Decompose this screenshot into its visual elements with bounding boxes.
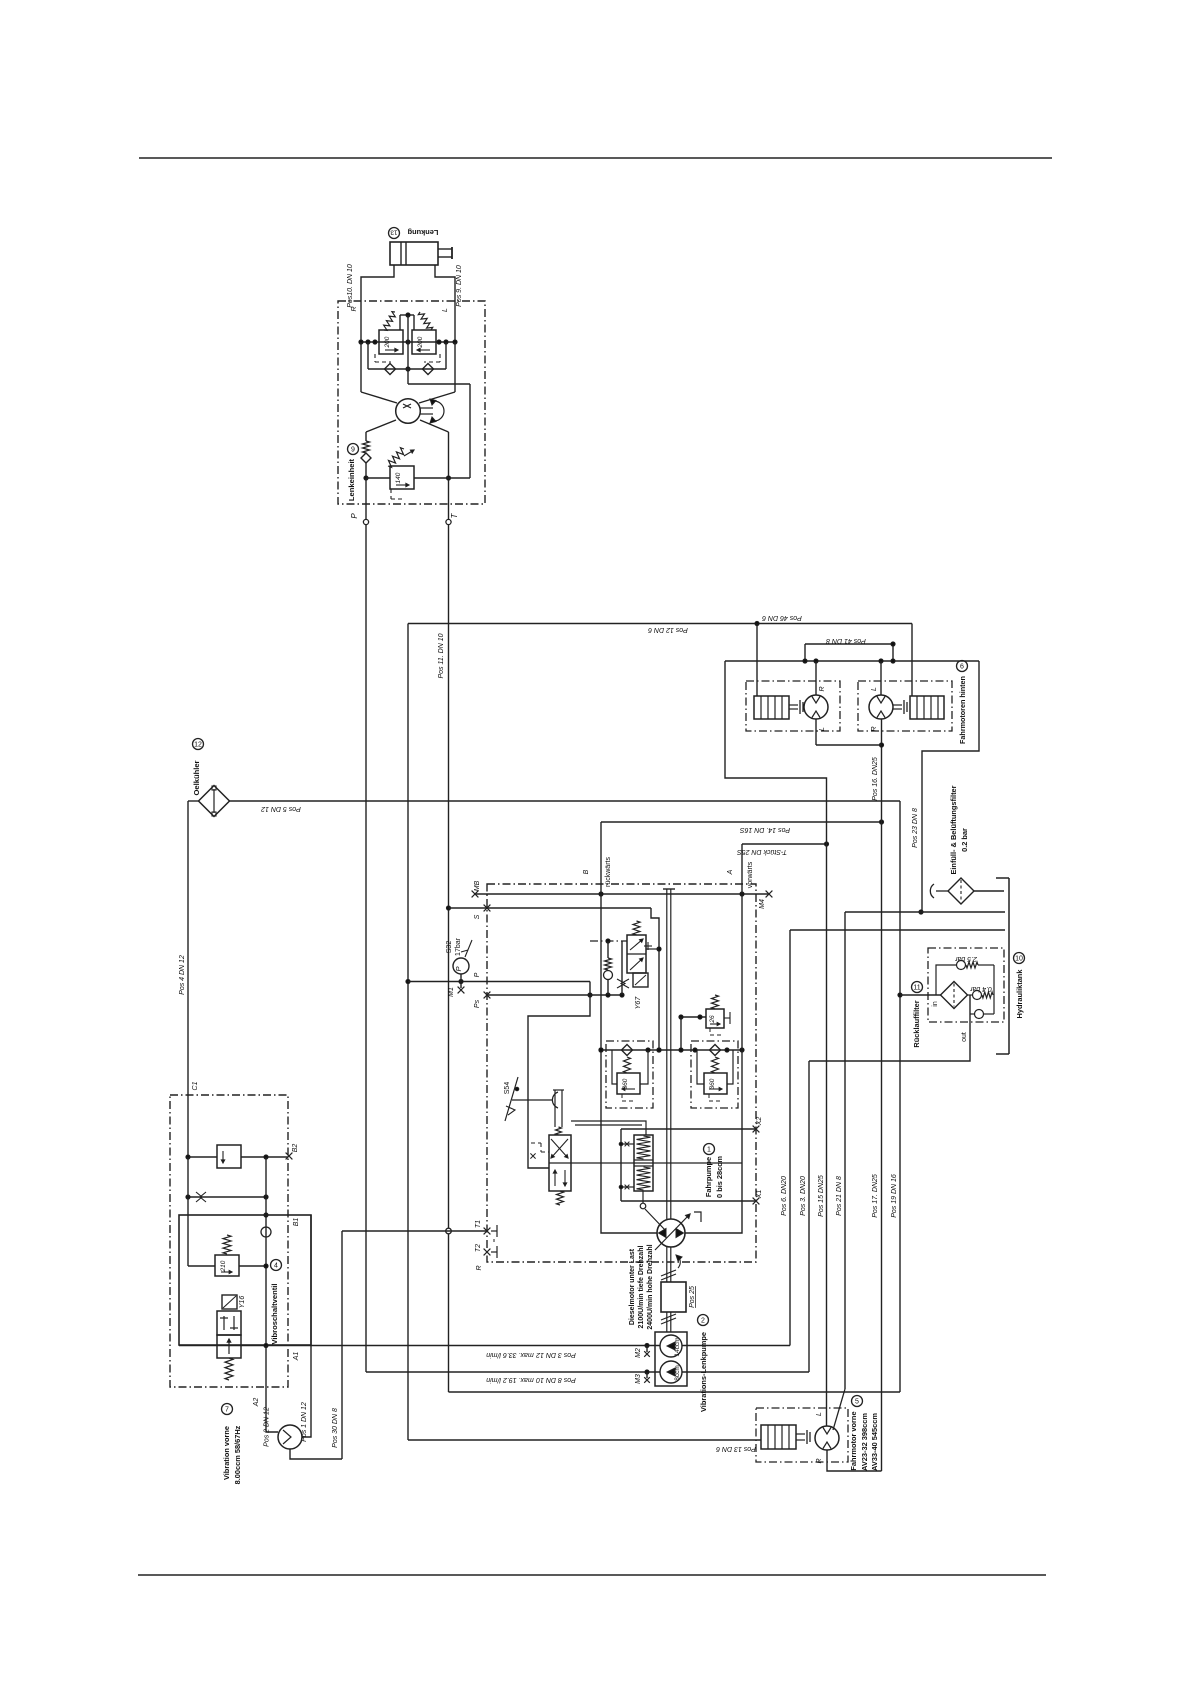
- svg-text:R: R: [476, 1265, 483, 1270]
- variable displacement travel pump: [657, 1219, 685, 1247]
- svg-text:M2: M2: [635, 1348, 642, 1358]
- svg-text:B1: B1: [293, 1218, 300, 1227]
- svg-text:Pos 21 DN 8: Pos 21 DN 8: [836, 1176, 843, 1216]
- svg-text:Lenkung: Lenkung: [407, 228, 438, 237]
- tank supply wire lower: [790, 929, 1005, 931]
- svg-text:0 bis 28ccm: 0 bis 28ccm: [715, 1156, 724, 1198]
- balloon 11 Ruecklauffilter: [912, 982, 923, 993]
- svg-text:Vibroschaltventil: Vibroschaltventil: [270, 1283, 279, 1344]
- svg-text:AV23-32 398ccm: AV23-32 398ccm: [860, 1413, 869, 1471]
- page top rule: [139, 157, 1052, 159]
- return filter assembly enclosure: [928, 948, 1004, 1022]
- pilot dash-dot wire: [590, 940, 627, 942]
- wire cylinder right port to L: [435, 265, 455, 301]
- front motor return wire: [827, 1450, 882, 1471]
- svg-text:5: 5: [855, 1399, 859, 1406]
- balloon 12 oil cooler: [193, 739, 204, 750]
- svg-text:A2: A2: [253, 1398, 260, 1408]
- svg-text:Pos 17. DN25: Pos 17. DN25: [872, 1174, 879, 1218]
- svg-text:Pos 30 DN 8: Pos 30 DN 8: [332, 1408, 339, 1448]
- cross-port relief valve 200 right: [412, 330, 436, 354]
- svg-text:Pos 5 DN 12: Pos 5 DN 12: [261, 805, 301, 812]
- svg-text:8ccm: 8ccm: [674, 1365, 681, 1381]
- port Ps wire: [484, 992, 491, 999]
- svg-text:Pos 41 DN 8: Pos 41 DN 8: [826, 637, 866, 644]
- wire Pos 46 to right parking brake: [911, 624, 913, 697]
- orifice branch wire: [188, 1196, 266, 1198]
- svg-text:in: in: [932, 1001, 939, 1007]
- svg-text:0.2 bar: 0.2 bar: [960, 828, 969, 852]
- case drain symbol: [694, 1212, 701, 1222]
- svg-text:0.4 bar: 0.4 bar: [969, 985, 991, 992]
- steering work lines to orbital: [360, 342, 362, 392]
- svg-text:Fahrmotor vorne: Fahrmotor vorne: [849, 1411, 858, 1470]
- wire Pos 13 brake release front: [408, 1439, 761, 1441]
- wire Pos 21 from tank line: [844, 912, 846, 1389]
- svg-text:2.5 bar: 2.5 bar: [954, 955, 977, 962]
- wire X1 pilot: [621, 1200, 756, 1202]
- right boost check and relief 360 assembly: [691, 1041, 738, 1108]
- wire X2 pilot: [621, 1128, 756, 1130]
- svg-text:M3: M3: [635, 1374, 642, 1384]
- wire A gallery tee: [742, 843, 827, 845]
- spring of inch valve: [557, 1191, 564, 1205]
- check ball: [261, 1227, 271, 1237]
- svg-text:Pos 15 DN25: Pos 15 DN25: [818, 1175, 825, 1217]
- ports T1 T2 R of pump group: [342, 1230, 487, 1232]
- pilot orifice branch: [621, 941, 623, 995]
- svg-text:MB: MB: [474, 880, 481, 891]
- front motor shaft: [796, 1433, 805, 1435]
- vibration valve group enclosure C1: [170, 1095, 288, 1387]
- steering unit enclosure (Lenkeinheit): [338, 301, 485, 504]
- svg-text:R: R: [871, 726, 878, 731]
- svg-text:4: 4: [274, 1263, 278, 1270]
- wire Pos 41 rear motor shift: [805, 643, 893, 645]
- left parking brake: [754, 696, 789, 719]
- left motor port wires: [815, 661, 817, 695]
- balloon 2 Vibrations-Lenkpumpe: [698, 1315, 709, 1326]
- spring of right relief: [418, 312, 432, 330]
- return filter element: [941, 982, 968, 1009]
- wire B2 node down: [187, 1157, 189, 1266]
- wire Ps branch to inch valve: [528, 995, 590, 1168]
- port M3: [645, 1370, 649, 1374]
- wire relief block to T gallery: [407, 369, 409, 384]
- svg-text:T2: T2: [475, 1244, 482, 1252]
- port B2: [286, 1153, 293, 1160]
- wire T line steering to pump group: [448, 525, 450, 1393]
- shaft coupling to engine: [666, 1247, 668, 1282]
- oil cooler: [199, 786, 230, 817]
- pilot bridge over reliefs: [400, 314, 414, 316]
- svg-text:10: 10: [1015, 956, 1023, 963]
- svg-text:rückwärts: rückwärts: [605, 857, 612, 887]
- vibration valve housing: [179, 1215, 311, 1345]
- rear motor supply gallery: [725, 660, 979, 662]
- svg-text:Pos 12 DN 6: Pos 12 DN 6: [648, 626, 688, 633]
- svg-text:1: 1: [707, 1147, 711, 1154]
- svg-text:T-Stück DN 25S: T-Stück DN 25S: [737, 848, 787, 855]
- inch valve stem: [554, 1090, 556, 1127]
- svg-text:S54: S54: [504, 1082, 511, 1095]
- svg-text:Fahrpumpe: Fahrpumpe: [704, 1157, 713, 1197]
- front travel motor: [815, 1426, 839, 1450]
- drive shaft: [666, 889, 668, 1219]
- right motor shaft: [893, 704, 902, 706]
- svg-text:P: P: [474, 972, 481, 977]
- svg-text:9: 9: [351, 447, 355, 454]
- svg-text:Pos 16. DN25: Pos 16. DN25: [872, 757, 879, 801]
- orbital bottom wires: [366, 420, 396, 432]
- svg-text:2400U/min hohe Drehzahl: 2400U/min hohe Drehzahl: [647, 1244, 654, 1329]
- svg-text:Pos 3 DN 12: Pos 3 DN 12: [536, 1351, 576, 1358]
- svg-text:8.00ccm 58/67Hz: 8.00ccm 58/67Hz: [233, 1425, 242, 1484]
- port MB with gauge line: [472, 891, 479, 898]
- svg-text:L: L: [819, 727, 826, 731]
- svg-text:max. 33.6 l/min: max. 33.6 l/min: [486, 1351, 534, 1358]
- svg-text:Pos 46 DN 6: Pos 46 DN 6: [762, 614, 802, 621]
- left boost check and relief 360 assembly: [606, 1041, 653, 1108]
- svg-text:P: P: [350, 513, 359, 519]
- svg-text:A1: A1: [293, 1352, 300, 1362]
- right rear motor assembly enclosure: [858, 681, 952, 731]
- svg-text:Pos 9. DN 10: Pos 9. DN 10: [456, 265, 463, 307]
- wire 14ccm suction Pos 6: [682, 1345, 790, 1347]
- svg-text:140: 140: [395, 472, 402, 483]
- wire inch valve to servo top: [571, 1121, 646, 1135]
- svg-text:200: 200: [384, 336, 391, 348]
- svg-text:S32: S32: [446, 941, 453, 954]
- svg-text:Ps: Ps: [474, 999, 481, 1008]
- svg-text:Rücklauffilter: Rücklauffilter: [912, 1000, 921, 1047]
- port M1: [460, 982, 462, 989]
- svg-text:Pos 13 DN 6: Pos 13 DN 6: [716, 1445, 756, 1452]
- svg-text:13: 13: [390, 229, 398, 236]
- balloon 7 Vibration vorne: [222, 1404, 233, 1415]
- svg-text:T1: T1: [475, 1220, 482, 1228]
- vibration and steering tandem pump: [655, 1332, 687, 1386]
- wire gallery right to tank breather line: [922, 661, 979, 912]
- wire work line B: [601, 822, 657, 1233]
- pressure gauge P with switch S32: [408, 981, 590, 983]
- relief valve 26: [681, 1016, 706, 1018]
- svg-text:B2: B2: [292, 1144, 299, 1153]
- svg-text:Hydrauliktank: Hydrauliktank: [1015, 969, 1024, 1019]
- svg-text:L: L: [442, 308, 449, 312]
- svg-text:Pos 14. DN 16S: Pos 14. DN 16S: [740, 826, 791, 833]
- left rear motor assembly enclosure: [746, 681, 840, 731]
- svg-text:11: 11: [913, 985, 920, 992]
- anticavitation check row wire: [368, 368, 446, 370]
- svg-text:Pos 6. DN20: Pos 6. DN20: [781, 1176, 788, 1216]
- T side wire: [448, 432, 450, 520]
- right parking brake: [910, 696, 944, 719]
- svg-text:210: 210: [220, 1260, 227, 1272]
- wire P line steering to pump M3 side: [365, 525, 367, 1373]
- vibration motor: [278, 1425, 302, 1449]
- svg-text:12: 12: [194, 742, 202, 749]
- pilot dashes of relief 140: [390, 489, 392, 499]
- steering relief valve 140: [366, 477, 390, 479]
- filter relief 0.4 bar: [968, 994, 974, 996]
- servo pilot orifices: [621, 1143, 634, 1145]
- orbital steering metering unit: [396, 399, 421, 424]
- spring of relief 140: [388, 448, 404, 468]
- svg-text:7: 7: [225, 1407, 229, 1414]
- svg-text:L: L: [816, 1412, 823, 1416]
- svg-text:2: 2: [701, 1318, 705, 1325]
- svg-text:Einfüll- & Belüftungsfilter: Einfüll- & Belüftungsfilter: [949, 785, 958, 874]
- svg-text:Fahrmotoren hinten: Fahrmotoren hinten: [958, 676, 967, 744]
- hydraulic tank: [996, 877, 1009, 879]
- front parking brake: [761, 1425, 796, 1449]
- svg-text:2100U/min tiefe Drehzahl: 2100U/min tiefe Drehzahl: [638, 1246, 645, 1329]
- wire B gallery to motors: [601, 821, 882, 823]
- wire A1 to vibration pump: [179, 1345, 660, 1347]
- servo feedback pin and lever: [642, 1191, 644, 1203]
- spring of Y16 valve: [225, 1358, 233, 1380]
- svg-text:Oelkühler: Oelkühler: [192, 760, 201, 795]
- svg-text:Vibration vorne: Vibration vorne: [222, 1426, 231, 1480]
- wire P to pilot gallery: [589, 982, 591, 996]
- shaft engine to tandem pump: [666, 1312, 668, 1332]
- relief valve 210 with spring: [188, 1265, 215, 1267]
- svg-text:Pos 23 DN 8: Pos 23 DN 8: [912, 808, 919, 848]
- svg-text:M1: M1: [448, 987, 455, 997]
- check valve right: [423, 364, 434, 375]
- left rear travel motor: [804, 695, 828, 719]
- wire vibration motor right port: [302, 1345, 311, 1437]
- relief row wire: [361, 341, 455, 343]
- left motor shaft: [789, 704, 798, 706]
- svg-text:17bar: 17bar: [455, 937, 462, 956]
- pilot lines dashed under reliefs: [374, 354, 376, 362]
- brake inch valve body: [549, 1135, 571, 1191]
- page bottom rule: [138, 1574, 1046, 1576]
- wire cylinder left port to R: [361, 265, 394, 301]
- steering cylinder C (Lenkung): [390, 242, 438, 265]
- wire S suction port: [449, 907, 652, 909]
- svg-text:Dieselmotor unter Last: Dieselmotor unter Last: [629, 1248, 636, 1325]
- svg-text:Pos 4 DN 12: Pos 4 DN 12: [179, 955, 186, 995]
- svg-text:Y67: Y67: [635, 996, 642, 1010]
- svg-text:R: R: [819, 686, 826, 691]
- balloon 1 Fahrpumpe: [704, 1144, 715, 1155]
- balloon 5 Fahrmotor vorne: [852, 1396, 863, 1407]
- svg-text:R: R: [816, 1458, 823, 1463]
- svg-text:14ccm: 14ccm: [674, 1337, 681, 1356]
- svg-text:360: 360: [622, 1078, 629, 1089]
- balloon 6 Fahrmotoren hinten: [957, 661, 968, 672]
- return filter in wire: [900, 994, 941, 996]
- port P of steering: [363, 519, 368, 524]
- wire R line into relief row: [360, 301, 362, 342]
- svg-text:360: 360: [709, 1078, 716, 1089]
- spring of left relief: [384, 312, 396, 331]
- svg-text:P: P: [454, 966, 463, 971]
- wire brake release line Pos 12: [408, 623, 912, 625]
- svg-text:Pos 3. DN20: Pos 3. DN20: [800, 1176, 807, 1216]
- svg-text:Pos 8 DN 10: Pos 8 DN 10: [536, 1376, 576, 1383]
- balloon 4 Vibroschaltventil: [271, 1260, 282, 1271]
- svg-text:X2: X2: [756, 1117, 763, 1127]
- svg-text:L: L: [871, 687, 878, 691]
- port M2: [645, 1343, 649, 1347]
- svg-text:200: 200: [417, 336, 424, 348]
- travel pump group enclosure: [487, 884, 756, 1262]
- port T of steering: [446, 519, 451, 524]
- wire work line A: [685, 844, 742, 1233]
- wire relief 26 to check gallery: [680, 1017, 682, 1050]
- svg-text:Y16: Y16: [239, 1296, 246, 1309]
- solenoid of Y67: [633, 973, 648, 987]
- proportional valve Y67: [633, 921, 640, 935]
- svg-text:C1: C1: [192, 1081, 199, 1090]
- solenoid Y16: [222, 1295, 237, 1309]
- balloon 9 Lenkeinheit: [348, 444, 359, 455]
- svg-text:Lenkeinheit: Lenkeinheit: [347, 458, 356, 501]
- svg-text:max. 19.2 l/min: max. 19.2 l/min: [486, 1376, 534, 1383]
- svg-text:B: B: [583, 869, 590, 874]
- filter bypass relief 2.5 bar: [936, 965, 957, 995]
- front motor assembly enclosure: [756, 1408, 848, 1462]
- breather filler filter: [930, 884, 934, 898]
- boost check gallery wire: [601, 1049, 742, 1051]
- svg-text:R: R: [351, 306, 358, 311]
- pilot check valve with spring: [607, 941, 609, 958]
- svg-text:vorwärts: vorwärts: [747, 861, 754, 888]
- wire cooler outlet Pos 5 to return line: [230, 800, 901, 802]
- label Lenkung with balloon 13: [389, 228, 400, 239]
- anti drain check: [993, 995, 995, 1014]
- port M4: [766, 891, 773, 898]
- wire return line Pos 19 down right side: [899, 801, 901, 1392]
- detent of inch valve: [552, 1092, 558, 1108]
- svg-text:M4: M4: [759, 899, 766, 909]
- balloon 10 Hydrauliktank: [1014, 953, 1025, 964]
- wire vibration motor drain Pos 30: [290, 1449, 342, 1459]
- servo positioning cylinder: [634, 1135, 653, 1191]
- svg-text:Pos 19 DN 16: Pos 19 DN 16: [891, 1174, 898, 1218]
- svg-text:AV33-40 545ccm: AV33-40 545ccm: [870, 1413, 879, 1471]
- wire servo pressure line Pos 11: [407, 624, 409, 1441]
- wire Pos 46 to left parking brake: [756, 624, 758, 697]
- wire A2 to vibration motor: [266, 1346, 278, 1433]
- wire gallery left down to Pos 15: [725, 661, 827, 1426]
- wire cooler inlet: [188, 800, 199, 802]
- steering shaft and actuation arrows: [421, 407, 434, 409]
- svg-text:Pos 2 DN 12: Pos 2 DN 12: [264, 1407, 271, 1447]
- wire inch valve output: [571, 1162, 742, 1164]
- wire L line into relief row: [454, 301, 456, 342]
- svg-text:S: S: [474, 914, 481, 919]
- svg-text:6: 6: [960, 664, 964, 671]
- cross-port relief valve 200 left: [379, 330, 403, 354]
- center pilot wire: [407, 315, 409, 369]
- svg-text:out: out: [961, 1032, 968, 1042]
- right rear travel motor: [869, 695, 893, 719]
- svg-text:26: 26: [709, 1015, 716, 1024]
- wire 8ccm suction Pos 3: [682, 1371, 809, 1373]
- svg-text:Pos 25: Pos 25: [689, 1286, 696, 1308]
- svg-text:A: A: [727, 869, 734, 875]
- svg-text:Pos 11. DN 10: Pos 11. DN 10: [438, 633, 445, 678]
- pilot dashes of inch valve: [531, 1142, 541, 1144]
- wire P inside steering: [365, 478, 367, 520]
- return filter out wire: [809, 995, 970, 1061]
- svg-text:X1: X1: [756, 1190, 763, 1200]
- rear motors return wire Pos 16/17: [881, 719, 883, 1471]
- front motor displacement pilot: [833, 1389, 845, 1430]
- relief valve B2 branch: [188, 1156, 217, 1158]
- vibration switching valve Y16 body: [217, 1311, 241, 1335]
- diesel engine Pos 25: [661, 1282, 686, 1312]
- tank supply wire upper: [845, 911, 1005, 913]
- inlet check valve with spring: [365, 432, 367, 441]
- check valve left: [385, 364, 396, 375]
- right motor port wires: [880, 661, 882, 695]
